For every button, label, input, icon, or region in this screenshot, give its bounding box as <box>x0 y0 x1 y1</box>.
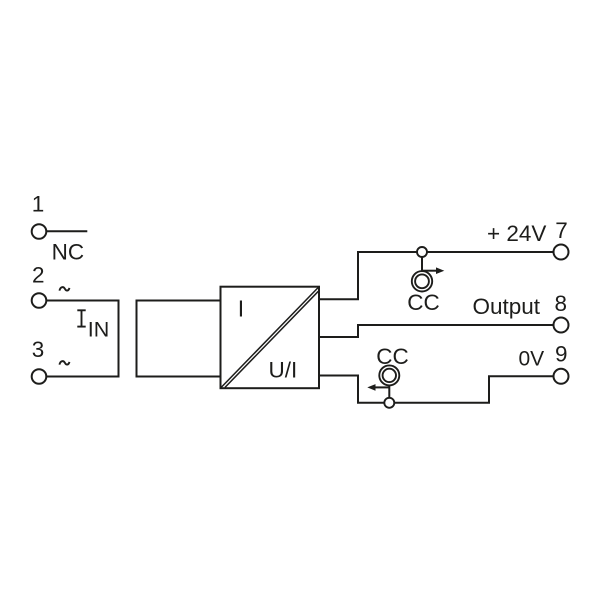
wire CC stub bottom <box>388 385 390 397</box>
terminal 9 circle <box>554 369 569 384</box>
svg-text:2: 2 <box>32 263 45 288</box>
svg-text:IN: IN <box>88 317 110 341</box>
transformer secondary winding box <box>137 301 221 377</box>
wire 0V from converter to terminal 9 <box>319 376 554 403</box>
wire +24V from converter to terminal 7 <box>319 252 554 299</box>
terminal 1 circle <box>32 224 47 239</box>
svg-text:8: 8 <box>555 291 568 316</box>
svg-text:CC: CC <box>407 290 440 315</box>
node junction on 0V line <box>384 398 394 408</box>
arrow current direction right <box>422 267 444 274</box>
CC symbol top (double circle) <box>412 271 432 291</box>
svg-text:NC: NC <box>52 240 85 265</box>
current symbol I_IN <box>77 310 85 326</box>
wire input current loop <box>46 301 118 377</box>
svg-text:0V: 0V <box>519 348 545 371</box>
svg-text:7: 7 <box>555 218 568 243</box>
svg-text:9: 9 <box>555 342 568 367</box>
terminal 3 circle <box>32 369 47 384</box>
svg-text:1: 1 <box>32 192 45 217</box>
converter diagonal divider (double line) <box>221 288 318 388</box>
svg-text:3: 3 <box>32 337 45 362</box>
wire CC stub top <box>421 257 423 271</box>
AC tilde terminal 2 <box>59 287 69 290</box>
svg-text:U/I: U/I <box>269 358 298 383</box>
svg-text:CC: CC <box>376 344 409 369</box>
terminal 7 circle <box>554 245 569 260</box>
svg-text:+ 24V: + 24V <box>487 221 546 246</box>
converter block U1 <box>221 287 320 389</box>
svg-text:Output: Output <box>473 294 541 319</box>
AC tilde terminal 3 <box>59 361 69 364</box>
terminal 2 circle <box>32 293 47 308</box>
CC symbol bottom (double circle) <box>379 365 399 385</box>
svg-text:I: I <box>238 295 244 321</box>
node junction on +24V line <box>417 247 427 257</box>
terminal 8 circle <box>554 318 569 333</box>
arrow current direction left <box>367 384 389 391</box>
wire Output from converter to terminal 8 <box>319 325 554 337</box>
wire NC stub <box>46 230 87 232</box>
